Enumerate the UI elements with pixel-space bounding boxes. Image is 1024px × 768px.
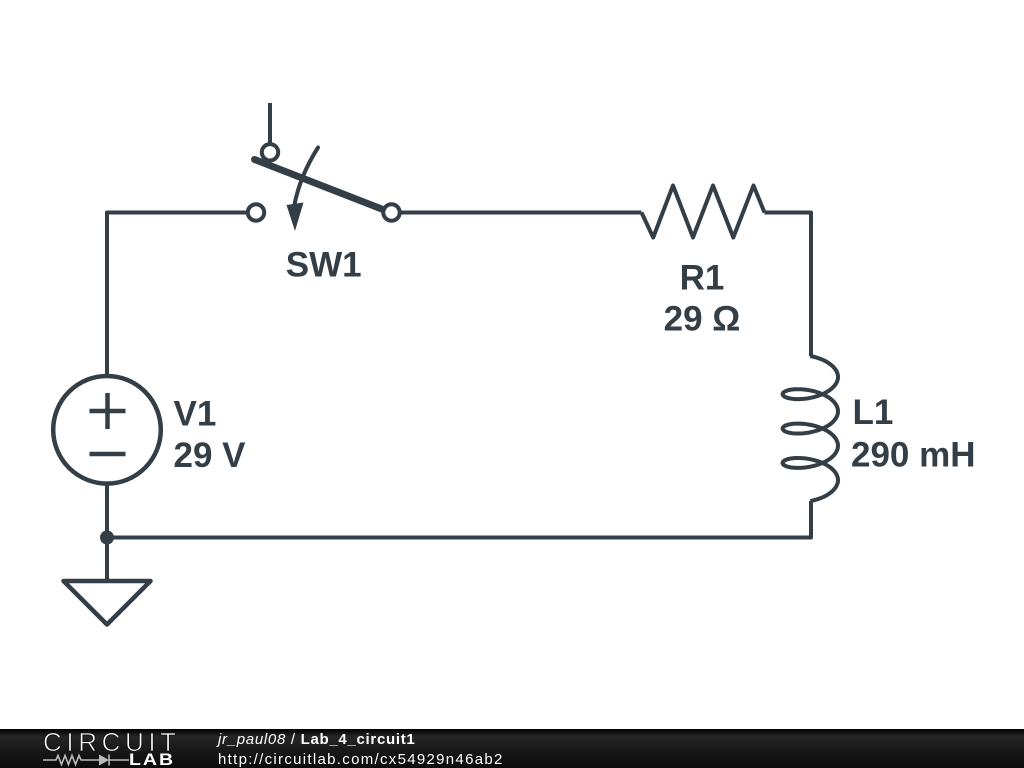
svg-text:SW1: SW1 — [286, 246, 362, 285]
squiggle tail — [109, 759, 129, 761]
svg-text:29 V: 29 V — [174, 436, 247, 475]
svg-text:L1: L1 — [853, 393, 894, 432]
wire: SW1 right terminal to R1 — [400, 211, 642, 215]
node: ground junction dot — [100, 531, 114, 545]
switch SW1 — [248, 103, 400, 231]
CircuitLab logo text CIRCUIT — [43, 733, 181, 751]
SW1 actuation arc — [295, 148, 319, 205]
svg-text:R1: R1 — [680, 259, 725, 298]
footer bar — [0, 729, 1024, 768]
squiggle wire + resistor zigzag — [43, 756, 99, 765]
CircuitLab logo squiggle (resistor + diode) — [43, 752, 129, 768]
SW1 right terminal circle — [383, 204, 399, 220]
SW1 left terminal circle — [248, 204, 264, 220]
wire: V1 bottom to ground node — [105, 483, 109, 538]
V1 circle — [53, 376, 161, 484]
wire: ground stub — [105, 538, 109, 582]
SW1 pivot circle — [262, 144, 278, 160]
wire: L1 bottom to bottom-right corner and left to ground node — [107, 501, 811, 538]
footer title line — [218, 732, 415, 747]
CircuitLab logo text LAB — [129, 754, 175, 766]
svg-text:290 mH: 290 mH — [851, 435, 976, 474]
SW1 throw bar — [255, 160, 384, 210]
footer url line — [218, 752, 504, 767]
wire: R1 to top-right corner down to L1 top — [765, 213, 812, 357]
V1 plus sign — [90, 393, 126, 429]
wire: SW1 top stub — [268, 103, 272, 143]
svg-text:V1: V1 — [174, 394, 217, 433]
squiggle diode bar — [108, 755, 110, 766]
V1 minus sign — [90, 452, 126, 457]
SW1 arrowhead — [287, 203, 304, 232]
ground symbol — [64, 581, 151, 625]
voltage source V1 — [53, 376, 161, 484]
wire: left branch from V1 top up and right to SW1 left terminal — [107, 213, 246, 376]
resistor R1 — [642, 186, 765, 238]
squiggle diode — [99, 755, 109, 766]
inductor L1 coil — [783, 356, 838, 501]
svg-text:29 Ω: 29 Ω — [664, 300, 741, 339]
